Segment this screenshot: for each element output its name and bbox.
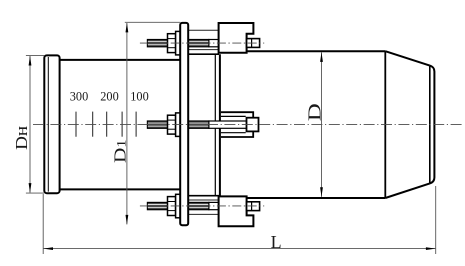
svg-text:L: L [271, 232, 282, 252]
bolt B2 middle: washer [176, 113, 181, 136]
bolt B3 bottom: shaft [147, 202, 218, 209]
spool bottom edge between flanges [188, 195, 219, 197]
bolt hole line top outer [188, 29, 218, 31]
dimension D line [321, 52, 323, 197]
body cylinder/cone junction line [384, 51, 386, 198]
pipe bottom edge [60, 188, 181, 190]
scale tick 4 [121, 112, 123, 137]
central boss around middle bolt [221, 112, 253, 137]
body tip band [430, 66, 435, 184]
bolt B1 top: washer [176, 31, 181, 55]
bottom bolt centerline [140, 205, 264, 207]
dimension D1 extension line [125, 21, 180, 23]
body top edge [247, 50, 386, 52]
svg-text:D1: D1 [110, 139, 129, 163]
bolt B2 middle: nut [168, 115, 176, 134]
bottom bolt end stub [247, 202, 260, 211]
spool top edge between flanges [188, 53, 219, 55]
bolt B3 bottom: washer [176, 194, 181, 218]
dimension L arrows [43, 247, 53, 250]
dimension Dn arrows [29, 56, 32, 66]
main axis centerline [33, 124, 463, 126]
bolt B1 top: nut [168, 34, 176, 53]
body bottom edge [247, 197, 386, 199]
bolt hole line top [188, 49, 218, 51]
scale tick 2 [92, 112, 94, 137]
dimension D1 line [126, 23, 128, 224]
top bolt end stub [247, 39, 260, 48]
svg-text:300: 300 [70, 90, 88, 104]
bolt B1 top: shaft [147, 40, 218, 47]
pipe top edge [60, 59, 181, 61]
svg-text:Dн: Dн [12, 126, 31, 150]
bolt B2 middle: shaft [147, 121, 246, 128]
dimension D1 arrows [126, 23, 129, 33]
bolt B3 bottom: nut [168, 197, 176, 216]
scale tick 5 [135, 112, 137, 137]
bottom clamp block [219, 196, 254, 226]
bolt hole line bottom [188, 199, 218, 201]
svg-text:100: 100 [130, 90, 148, 104]
top bolt centerline [140, 42, 264, 44]
middle bolt end nut [247, 118, 259, 132]
dimension Dn extension lines [26, 54, 44, 56]
body cone top edge [385, 51, 430, 65]
flange plate P1 [180, 23, 188, 225]
dimension L line [44, 248, 436, 250]
top clamp block [219, 23, 254, 53]
dimension L extension lines [42, 194, 44, 254]
svg-text:200: 200 [100, 90, 118, 104]
scale tick 1 [75, 112, 77, 137]
dimension Dn line [29, 56, 31, 193]
body cone bottom edge [385, 183, 430, 198]
dimension D arrows [320, 52, 323, 62]
svg-text:D: D [305, 103, 325, 121]
bolt hole line bottom outer [188, 213, 218, 215]
flange plate P2 [215, 54, 221, 196]
pipe end cap [44, 55, 59, 193]
scale tick 3 [106, 112, 108, 137]
